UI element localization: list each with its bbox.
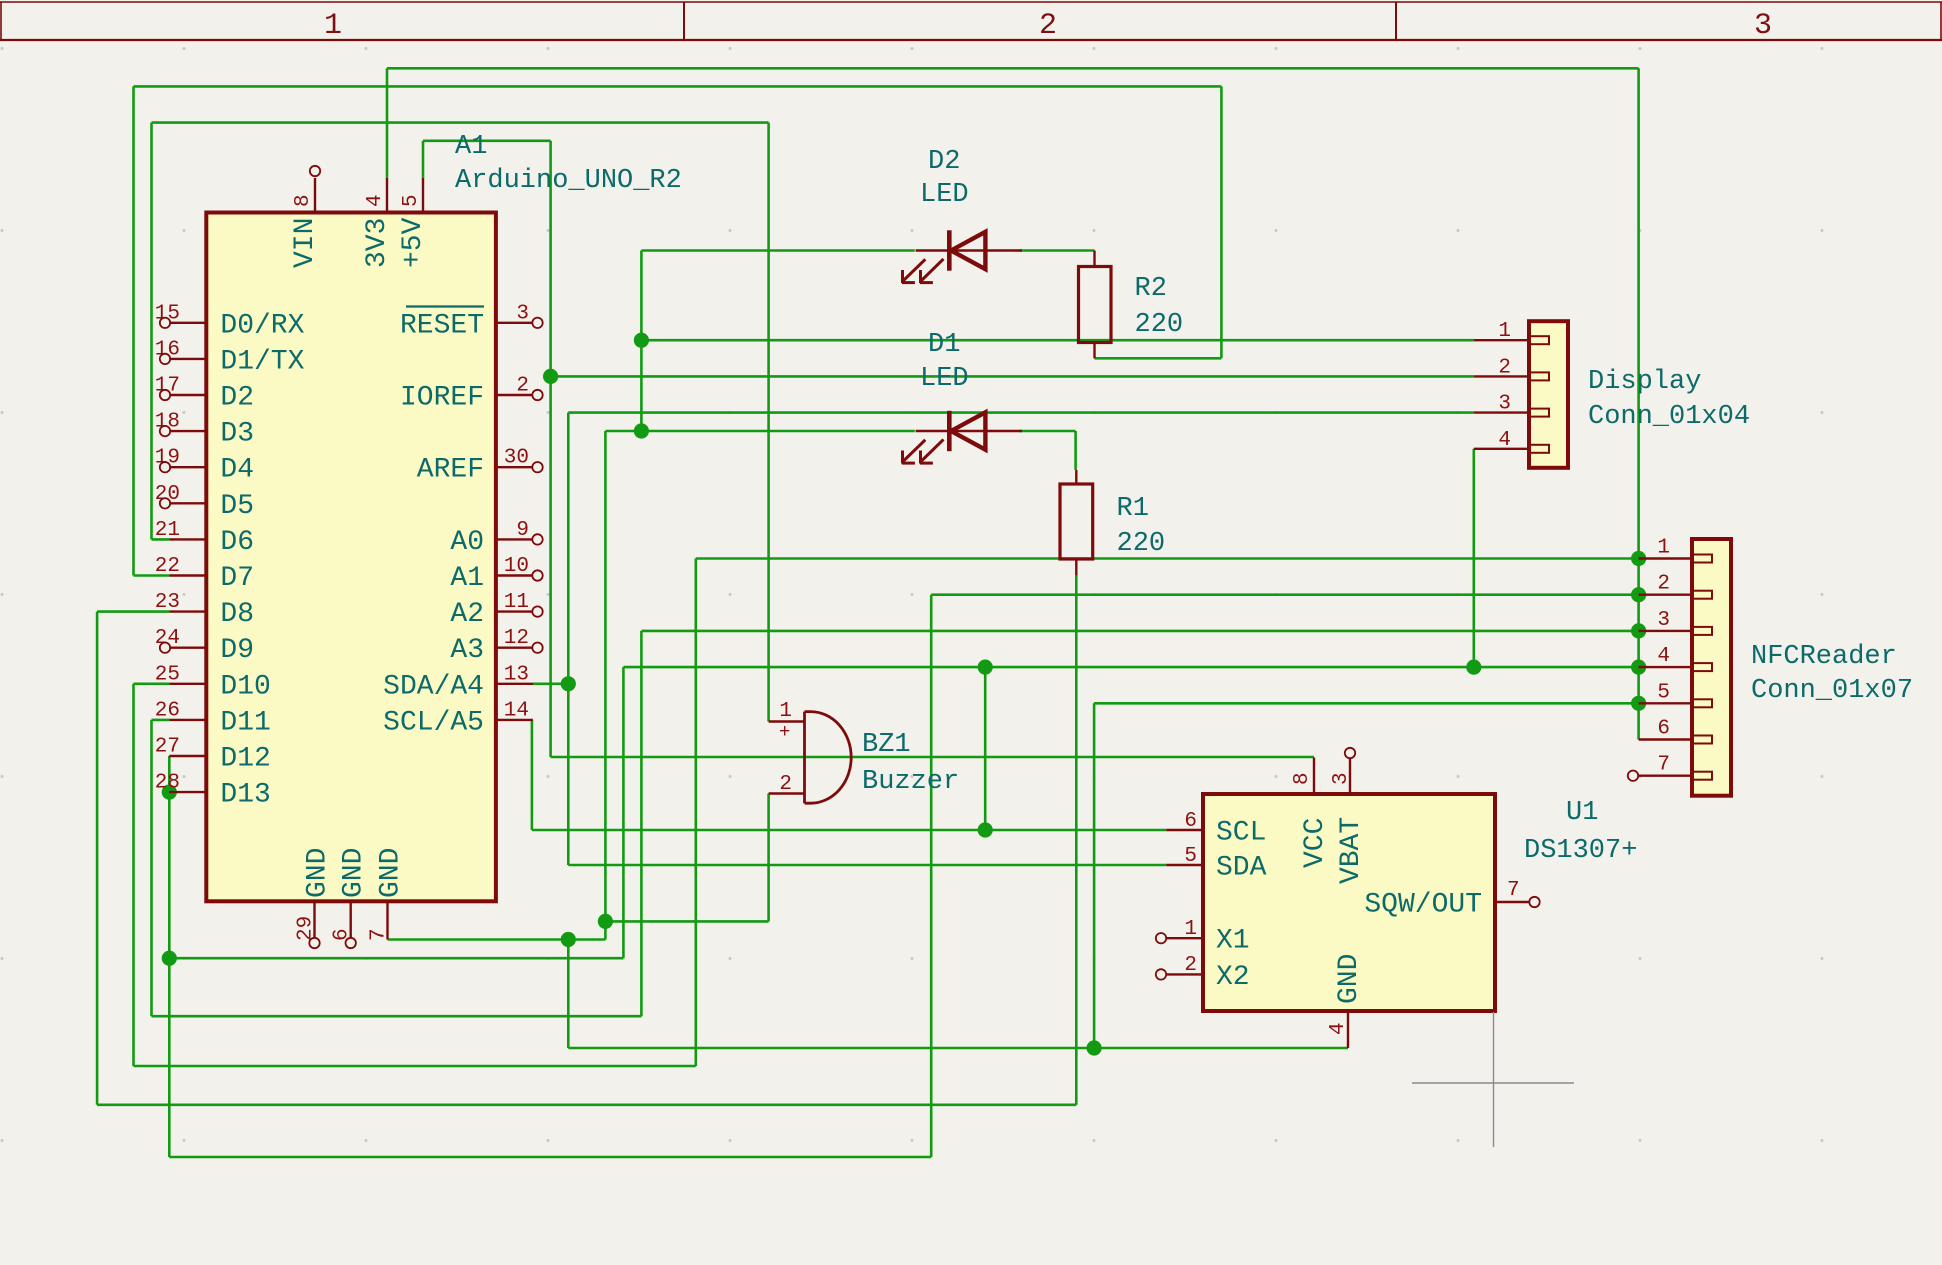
NFCReader pin 6 <box>1639 718 1712 744</box>
svg-text:2: 2 <box>1657 573 1670 596</box>
pin 28 (D13) <box>155 772 271 811</box>
wire D6 vertical <box>150 123 153 540</box>
svg-text:SCL/A5: SCL/A5 <box>383 707 484 738</box>
svg-text:4: 4 <box>1657 645 1670 668</box>
svg-text:D7: D7 <box>220 563 254 594</box>
wire 3V3 pin4 vertical <box>386 68 389 178</box>
svg-text:VIN: VIN <box>290 218 321 268</box>
wire SCL/A5 vertical <box>531 720 534 830</box>
svg-text:2: 2 <box>779 773 792 796</box>
wire 3V3 top horizontal <box>387 67 1639 70</box>
wire D13 branch horizontal <box>169 957 623 960</box>
svg-text:D11: D11 <box>220 707 270 738</box>
svg-text:Display: Display <box>1588 367 1701 397</box>
wire D8 stub extension <box>97 610 169 613</box>
cursor crosshair <box>1412 1012 1574 1147</box>
unconnected pin 3 <box>532 318 542 328</box>
NFCReader pin 4 <box>1639 645 1712 671</box>
wire R2 bottom horizontal <box>1095 357 1222 360</box>
svg-text:3: 3 <box>1330 772 1353 785</box>
svg-text:7: 7 <box>1657 754 1670 777</box>
unconnected pin 6 <box>346 938 356 948</box>
pin 24 (D9) <box>155 627 254 666</box>
pin 18 (D3) <box>155 411 254 450</box>
wire bottom horizontal to NFC pin2 net <box>169 1156 931 1159</box>
Display pin 2 <box>1474 356 1549 380</box>
svg-text:D12: D12 <box>220 744 270 775</box>
svg-text:Arduino_UNO_R2: Arduino_UNO_R2 <box>455 166 682 196</box>
pin 5 (+5V) <box>398 178 429 268</box>
unconnected U1 pin 7 <box>1529 897 1539 907</box>
pin 23 (D8) <box>155 591 254 630</box>
svg-text:SDA: SDA <box>1216 853 1267 884</box>
junction <box>978 822 993 837</box>
svg-text:1: 1 <box>324 9 342 43</box>
svg-text:7: 7 <box>368 928 391 941</box>
svg-text:U1: U1 <box>1566 798 1598 828</box>
pin 22 (D7) <box>155 555 254 594</box>
wire +5V to Display pin2 <box>551 375 1474 378</box>
svg-text:3: 3 <box>1657 609 1670 632</box>
wire 3V3 vertical to NFC connector <box>1637 68 1640 739</box>
junction <box>162 951 177 966</box>
arduino U A1 Arduino_UNO_R2 <box>206 213 496 902</box>
wire NFC pin2 net vertical <box>930 595 933 1157</box>
svg-text:+: + <box>779 721 790 743</box>
junction <box>978 660 993 675</box>
wire SCL to U1 <box>532 829 1166 832</box>
svg-text:VCC: VCC <box>1300 818 1331 868</box>
svg-text:SQW/OUT: SQW/OUT <box>1364 890 1482 921</box>
wire +5V vertical <box>549 141 552 757</box>
svg-text:D9: D9 <box>220 635 254 666</box>
buzzer BZ1 <box>769 700 852 803</box>
svg-text:NFCReader: NFCReader <box>1751 642 1897 672</box>
unconnected NFCReader pin 7 <box>1628 771 1638 781</box>
svg-text:GND: GND <box>1334 954 1365 1004</box>
svg-text:220: 220 <box>1117 529 1166 559</box>
U1 pin 2 (X2) <box>1166 954 1249 993</box>
svg-text:30: 30 <box>504 447 529 470</box>
wire to NFC pin4 <box>623 666 1638 669</box>
pin 30 (AREF) <box>417 447 533 486</box>
svg-text:GND: GND <box>376 848 407 898</box>
resistor R1 <box>1060 470 1093 576</box>
svg-text:A2: A2 <box>450 599 484 630</box>
pin 15 (D0/RX) <box>155 302 305 341</box>
junction <box>1631 660 1646 675</box>
wire GND to buzzer pin2 <box>605 920 768 923</box>
svg-text:AREF: AREF <box>417 455 484 486</box>
IC U1 DS1307+ <box>1203 794 1495 1011</box>
wire to NFC pin2 <box>931 593 1638 596</box>
svg-text:17: 17 <box>155 375 180 398</box>
wire to NFC pin3 <box>641 630 1638 633</box>
svg-text:27: 27 <box>155 736 180 759</box>
pin 21 (D6) <box>155 519 254 558</box>
wire D1 anode to R1 <box>1019 430 1076 433</box>
wire SDA vertical <box>567 413 570 865</box>
junction <box>1631 696 1646 711</box>
svg-text:1: 1 <box>779 700 792 723</box>
svg-text:GND: GND <box>339 848 370 898</box>
svg-text:12: 12 <box>504 627 529 650</box>
junction <box>561 676 576 691</box>
U1 pin 1 (X1) <box>1166 918 1249 957</box>
svg-text:5: 5 <box>1184 845 1197 868</box>
pin 6 (GND) <box>331 848 370 941</box>
unconnected pin 18 <box>160 426 170 436</box>
svg-text:LED: LED <box>920 364 969 394</box>
pin 11 (A2) <box>450 591 533 630</box>
unconnected U1 pin 2 <box>1156 969 1166 979</box>
unconnected U1 pin 3 <box>1345 748 1355 758</box>
svg-text:6: 6 <box>1184 810 1197 833</box>
unconnected pin 10 <box>532 570 542 580</box>
wire SCL branch vertical <box>984 667 987 830</box>
unconnected pin 24 <box>160 643 170 653</box>
svg-text:22: 22 <box>155 555 180 578</box>
wire D10 bottom horizontal <box>134 1065 696 1068</box>
svg-text:6: 6 <box>1657 718 1670 741</box>
svg-text:25: 25 <box>155 663 180 686</box>
wire GND vertical <box>604 431 607 940</box>
svg-text:4: 4 <box>364 194 387 207</box>
unconnected pin 9 <box>532 534 542 544</box>
unconnected pin 8 <box>310 166 320 176</box>
svg-text:5: 5 <box>1657 681 1670 704</box>
junction <box>598 914 613 929</box>
pin 2 (IOREF) <box>400 375 533 414</box>
svg-text:Conn_01x04: Conn_01x04 <box>1588 402 1750 432</box>
wire D7 vertical <box>132 86 135 575</box>
wire buzzer pin1 vertical <box>767 123 770 722</box>
wire D1 cathode <box>605 430 914 433</box>
svg-text:3: 3 <box>1498 393 1511 416</box>
wire GND branch vertical <box>1093 703 1096 1048</box>
svg-text:A3: A3 <box>450 635 484 666</box>
svg-text:19: 19 <box>155 447 180 470</box>
wire D6 stub extension <box>152 538 170 541</box>
sheet border frame <box>0 2 1942 40</box>
connector J NFCReader Conn_01x07 <box>1692 539 1731 796</box>
wire GND to U1 <box>568 1047 1348 1050</box>
svg-text:LED: LED <box>920 180 969 210</box>
junction <box>543 369 558 384</box>
wire +5V horizontal <box>423 140 551 143</box>
svg-text:A1: A1 <box>450 563 484 594</box>
wire D11 stub extension <box>152 719 170 722</box>
svg-text:3: 3 <box>1754 9 1772 43</box>
svg-text:28: 28 <box>155 772 180 795</box>
svg-text:5: 5 <box>400 194 423 207</box>
svg-text:2: 2 <box>1498 356 1511 379</box>
unconnected pin 30 <box>532 462 542 472</box>
wire D10 stub extension <box>134 682 170 685</box>
svg-text:GND: GND <box>303 848 334 898</box>
svg-text:18: 18 <box>155 411 180 434</box>
pin 9 (A0) <box>450 519 533 558</box>
pin 7 (GND) <box>368 848 407 941</box>
wire R1 top vertical <box>1074 431 1077 470</box>
wire D11 vertical <box>150 720 153 1016</box>
svg-text:D6: D6 <box>220 527 254 558</box>
wire buzzer pin2 vertical <box>767 794 770 922</box>
svg-text:X1: X1 <box>1216 926 1250 957</box>
svg-text:RESET: RESET <box>400 310 484 341</box>
unconnected pin 19 <box>160 462 170 472</box>
junction <box>162 785 177 800</box>
wire Display pin4 vertical <box>1473 449 1476 667</box>
wire SDA/A4 stub extension <box>532 682 568 685</box>
U1 pin 6 (SCL) <box>1166 810 1266 849</box>
LED D1 <box>902 411 1022 464</box>
svg-text:Conn_01x07: Conn_01x07 <box>1751 676 1913 706</box>
Display pin 1 <box>1474 320 1549 344</box>
svg-text:16: 16 <box>155 338 180 361</box>
wire GND vertical at D2 <box>640 251 643 432</box>
svg-text:DS1307+: DS1307+ <box>1524 836 1637 866</box>
wire +5V pin5 vertical <box>422 141 425 178</box>
unconnected pin 17 <box>160 390 170 400</box>
junction <box>1466 660 1481 675</box>
wire D12/D13 vertical <box>168 756 171 1157</box>
wire GND to NFC pin5 <box>1094 702 1639 705</box>
svg-text:D10: D10 <box>220 671 270 702</box>
svg-text:8: 8 <box>1291 772 1314 785</box>
Display pin 3 <box>1474 393 1549 417</box>
svg-text:21: 21 <box>155 519 180 542</box>
wire D7 top horizontal <box>134 85 1222 88</box>
svg-text:D0/RX: D0/RX <box>220 310 304 341</box>
wire GND to Display pin1 <box>641 339 1473 342</box>
pin 14 (SCL/A5) <box>383 699 533 738</box>
wire D10 net vertical <box>694 559 697 1067</box>
pin 16 (D1/TX) <box>155 338 305 377</box>
svg-text:20: 20 <box>155 483 180 506</box>
pin 26 (D11) <box>155 699 271 738</box>
svg-text:D8: D8 <box>220 599 254 630</box>
pin 3 (RESET) <box>400 302 533 341</box>
svg-text:9: 9 <box>516 519 529 542</box>
svg-text:2: 2 <box>1184 954 1197 977</box>
svg-text:14: 14 <box>504 699 529 722</box>
NFCReader pin 3 <box>1639 609 1712 635</box>
svg-text:11: 11 <box>504 591 529 614</box>
U1 pin 7 (SQW/OUT) <box>1364 879 1529 921</box>
wire D7 stub extension <box>134 574 170 577</box>
unconnected pin 15 <box>160 318 170 328</box>
pin 17 (D2) <box>155 375 254 414</box>
wire D11 bottom horizontal <box>152 1015 642 1018</box>
svg-text:3: 3 <box>516 302 529 325</box>
NFCReader pin 1 <box>1639 537 1712 563</box>
unconnected pin 12 <box>532 643 542 653</box>
wire D8 vertical <box>96 612 99 1105</box>
pin 8 (VIN) <box>290 178 321 268</box>
svg-text:1: 1 <box>1498 320 1511 343</box>
svg-text:13: 13 <box>504 663 529 686</box>
svg-text:R2: R2 <box>1135 274 1167 304</box>
unconnected U1 pin 1 <box>1156 933 1166 943</box>
svg-text:3V3: 3V3 <box>362 218 393 268</box>
svg-text:10: 10 <box>504 555 529 578</box>
pin 29 (GND) <box>295 848 334 941</box>
U1 pin 5 (SDA) <box>1166 845 1266 884</box>
svg-text:15: 15 <box>155 302 180 325</box>
NFCReader pin 7 <box>1639 754 1712 780</box>
NFCReader pin 2 <box>1639 573 1712 599</box>
wire D2 cathode <box>641 249 914 252</box>
junction <box>1631 551 1646 566</box>
svg-text:D1: D1 <box>928 330 960 360</box>
svg-text:8: 8 <box>292 194 315 207</box>
svg-text:D13: D13 <box>220 780 270 811</box>
junction <box>634 423 649 438</box>
wire to NFC pin1 <box>696 557 1639 560</box>
unconnected pin 2 <box>532 390 542 400</box>
svg-text:4: 4 <box>1498 429 1511 452</box>
junction <box>634 333 649 348</box>
svg-text:2: 2 <box>1039 9 1057 43</box>
svg-text:23: 23 <box>155 591 180 614</box>
unconnected pin 11 <box>532 606 542 616</box>
svg-text:1: 1 <box>1184 918 1197 941</box>
wire GND vertical low <box>567 940 570 1049</box>
svg-text:SDA/A4: SDA/A4 <box>383 671 484 702</box>
junction <box>1087 1040 1102 1055</box>
svg-text:D5: D5 <box>220 491 254 522</box>
pin 27 (D12) <box>155 736 271 775</box>
svg-text:1: 1 <box>1657 537 1670 560</box>
pin 13 (SDA/A4) <box>383 663 533 702</box>
svg-text:R1: R1 <box>1117 494 1149 524</box>
wire D10 vertical <box>132 684 135 1066</box>
svg-text:24: 24 <box>155 627 180 650</box>
wire SDA to Display pin3 <box>568 411 1474 414</box>
wire R1 bottom vertical <box>1075 576 1078 1105</box>
pin 20 (D5) <box>155 483 254 522</box>
svg-text:VBAT: VBAT <box>1336 817 1367 884</box>
svg-text:IOREF: IOREF <box>400 383 484 414</box>
junction <box>1631 623 1646 638</box>
resistor R2 <box>1079 251 1112 359</box>
svg-text:BZ1: BZ1 <box>862 730 911 760</box>
svg-text:D4: D4 <box>220 455 254 486</box>
unconnected pin 16 <box>160 354 170 364</box>
U1 pin 4 (GND) <box>1327 954 1365 1048</box>
junction <box>1631 587 1646 602</box>
svg-text:A1: A1 <box>455 132 487 162</box>
svg-text:6: 6 <box>331 928 354 941</box>
wire GND from pin7 <box>388 938 606 941</box>
svg-text:220: 220 <box>1135 310 1184 340</box>
LED D2 <box>902 230 1022 283</box>
U1 pin 3 (VBAT) <box>1330 759 1367 885</box>
svg-text:7: 7 <box>1507 879 1520 902</box>
wire D6 to buzzer horizontal <box>152 121 769 124</box>
svg-text:+5V: +5V <box>398 217 429 268</box>
svg-text:X2: X2 <box>1216 962 1250 993</box>
svg-text:26: 26 <box>155 699 180 722</box>
unconnected pin 29 <box>309 938 319 948</box>
unconnected pin 20 <box>160 498 170 508</box>
pin 10 (A1) <box>450 555 533 594</box>
U1 pin 8 (VCC) <box>1291 758 1331 869</box>
svg-text:D2: D2 <box>220 383 254 414</box>
pin 12 (A3) <box>450 627 533 666</box>
svg-text:D2: D2 <box>928 147 960 177</box>
wire SDA to U1 <box>568 864 1166 867</box>
wire D2 anode to R2 <box>1019 249 1095 252</box>
svg-text:Buzzer: Buzzer <box>862 767 959 797</box>
NFCReader pin 5 <box>1639 681 1712 707</box>
wire D8 to R1 horizontal <box>97 1104 1076 1107</box>
wire +5V to U1 VCC <box>551 756 1314 759</box>
pin 19 (D4) <box>155 447 254 486</box>
svg-text:2: 2 <box>516 375 529 398</box>
Display pin 4 <box>1474 429 1549 453</box>
svg-text:4: 4 <box>1327 1022 1350 1035</box>
svg-text:D3: D3 <box>220 419 254 450</box>
svg-text:SCL: SCL <box>1216 818 1266 849</box>
svg-text:A0: A0 <box>450 527 484 558</box>
pin 25 (D10) <box>155 663 271 702</box>
pin 4 (3V3) <box>362 178 393 268</box>
wire NFC pin4 net vertical <box>622 667 625 958</box>
wire R2 net vertical <box>1220 86 1223 358</box>
svg-text:D1/TX: D1/TX <box>220 346 304 377</box>
junction <box>561 932 576 947</box>
wire D11 net vertical <box>640 631 643 1016</box>
connector J Display Conn_01x04 <box>1529 321 1568 468</box>
